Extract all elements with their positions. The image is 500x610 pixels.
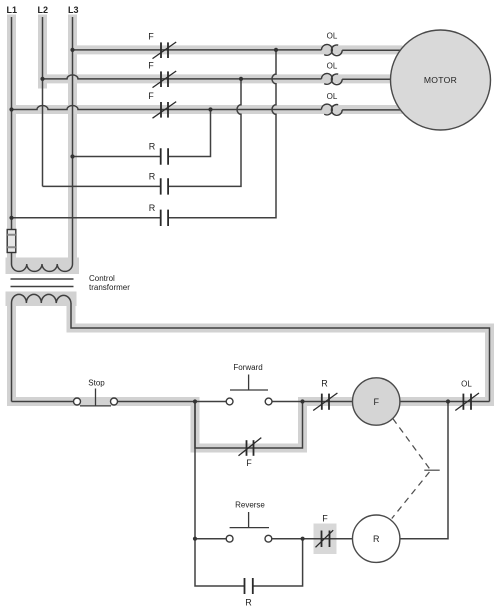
mechanical interlock dashed link F coil to R coil xyxy=(392,419,440,519)
junction node: reverse row right xyxy=(301,537,305,541)
junction node: row3/riser4 xyxy=(208,107,212,111)
svg-text:OL: OL xyxy=(327,62,338,71)
svg-text:transformer: transformer xyxy=(89,283,130,292)
svg-text:MOTOR: MOTOR xyxy=(424,75,457,85)
wire row5 L2 to R contact, riser to row2 with hop over row3 xyxy=(43,79,242,186)
wire stop button to forward button xyxy=(118,401,227,403)
wire L3 vertical xyxy=(72,17,74,264)
svg-text:Reverse: Reverse xyxy=(235,501,265,510)
wire R coil to right riser up to OL junction xyxy=(400,402,448,539)
wire feeder: secondary right down, across top, down right rail xyxy=(71,303,490,402)
svg-text:F: F xyxy=(148,32,154,42)
wire L1 highlighted band xyxy=(7,19,16,262)
svg-text:F: F xyxy=(148,61,154,71)
wire row2 OL to motor xyxy=(342,78,391,80)
svg-text:R: R xyxy=(149,203,156,213)
svg-text:Control: Control xyxy=(89,274,115,283)
svg-text:OL: OL xyxy=(461,380,472,389)
open interlock contact highlighted box xyxy=(314,524,337,555)
pushbutton Stop (NC) xyxy=(74,398,118,405)
svg-text:Stop: Stop xyxy=(88,379,105,388)
wire L3 highlighted band xyxy=(68,19,77,262)
highlighted current path (gray bands) xyxy=(12,19,490,448)
wire L2 vertical xyxy=(42,17,44,186)
wire F coil to OL to right rail xyxy=(400,401,490,403)
junction node: stop row / holding branch xyxy=(193,399,197,403)
wire L1 vertical xyxy=(11,17,13,264)
wire row3 L1 to OL with hops over L2 and L3 xyxy=(12,106,322,110)
wire row6 L1 to R contact, riser to row1 with hops over row3 and row2 xyxy=(12,50,277,218)
junction node: row2/L2 xyxy=(40,77,44,81)
transformer primary highlighted block xyxy=(6,258,80,275)
junction node: reverse row left xyxy=(193,537,197,541)
transformer secondary winding xyxy=(12,294,72,401)
wire reverse row to reverse button xyxy=(195,538,226,540)
svg-text:R: R xyxy=(149,142,156,152)
svg-text:F: F xyxy=(246,458,252,468)
contact R power row6 xyxy=(161,210,168,226)
wire row1 L3 to OL xyxy=(73,49,322,51)
junction node: row1/L3 xyxy=(70,48,74,52)
contact R holding (open) xyxy=(245,578,253,594)
wire row2 L2 to OL with hop over L3 xyxy=(43,75,322,79)
svg-text:L2: L2 xyxy=(38,5,49,15)
junction node: row2/riser5 xyxy=(239,77,243,81)
control loop highlighted band left/bottom xyxy=(12,297,490,448)
junction node: row1/riser6 xyxy=(274,48,278,52)
wire stop row: secondary to stop button xyxy=(12,401,74,403)
wire row3 highlighted band xyxy=(12,105,399,114)
transformer core lines xyxy=(11,279,74,287)
contact R power row5 xyxy=(161,178,168,194)
svg-text:F: F xyxy=(373,397,379,407)
contact F power row2 xyxy=(153,71,177,88)
junction node: row4/L3 xyxy=(70,154,74,158)
wire left riser stop row to reverse row to bottom branch xyxy=(195,402,303,587)
svg-text:R: R xyxy=(245,598,252,608)
wire row4 L3 to R contact, R contact to row3 riser xyxy=(73,110,211,157)
contact F power row3 xyxy=(153,102,177,119)
junction node: row6/L1 xyxy=(9,216,13,220)
motor M xyxy=(391,30,491,130)
overload heater OL row3 xyxy=(322,104,343,115)
contact OL control (closed NC) xyxy=(455,393,479,411)
junction node: row3/L1 xyxy=(9,107,13,111)
contact F holding (closed) xyxy=(239,438,262,456)
svg-text:L1: L1 xyxy=(7,5,18,15)
pushbutton Reverse (NO) xyxy=(226,535,272,542)
junction node: coil output / riser xyxy=(446,399,450,403)
transformer primary winding xyxy=(12,264,73,271)
pushbutton Forward (NO) xyxy=(226,398,272,405)
wire L2 highlighted band xyxy=(38,19,47,84)
wire reverse button through F interlock to R coil xyxy=(272,538,353,540)
svg-text:L3: L3 xyxy=(68,5,79,15)
svg-text:F: F xyxy=(148,91,154,101)
contact R interlock (closed NC) xyxy=(313,393,337,411)
svg-text:R: R xyxy=(373,534,380,544)
svg-text:R: R xyxy=(321,379,328,389)
contact R power row4 xyxy=(161,148,168,164)
wire row1 OL to motor xyxy=(342,49,401,51)
overload heater OL row2 xyxy=(322,74,343,85)
svg-text:R: R xyxy=(149,172,156,182)
wire row1 highlighted band xyxy=(73,45,399,54)
wire holding branch around forward button xyxy=(195,402,303,449)
wire row2 highlighted band xyxy=(43,74,392,83)
wire row3 OL to motor xyxy=(342,109,401,111)
svg-text:OL: OL xyxy=(327,32,338,41)
coil R (de-energized) xyxy=(353,515,400,562)
transformer secondary highlighted block xyxy=(6,292,77,307)
coil F (energized) xyxy=(353,378,400,425)
junction node: holding branch right xyxy=(300,399,304,403)
svg-text:Forward: Forward xyxy=(233,363,262,372)
contact F power row1 xyxy=(153,42,177,59)
contact F interlock (open NC, highlighted) xyxy=(316,530,334,547)
svg-text:F: F xyxy=(322,514,328,524)
svg-text:OL: OL xyxy=(327,92,338,101)
wire forward button through R contact to F coil xyxy=(272,401,353,403)
fuse F1 on L1 xyxy=(7,230,16,253)
overload heater OL row1 xyxy=(322,45,343,56)
